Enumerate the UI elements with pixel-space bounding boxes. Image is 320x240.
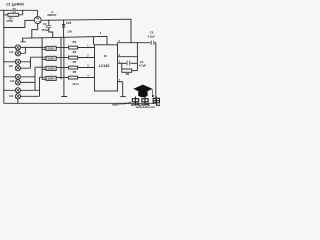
svg-text:H3: H3	[10, 79, 14, 83]
svg-text:C1 1μ/400V: C1 1μ/400V	[6, 3, 25, 7]
wire pin5	[118, 62, 127, 64]
lamp H2 pair wires	[4, 57, 46, 68]
svg-text:SSR2: SSR2	[48, 57, 56, 61]
svg-text:1k×4: 1k×4	[72, 82, 79, 86]
op-amp U1 IC box	[95, 45, 118, 91]
svg-text:VD4: VD4	[66, 21, 72, 25]
svg-text:SSR4: SSR4	[48, 77, 56, 81]
lamp H1a	[15, 45, 20, 50]
resistor R3	[56, 57, 68, 59]
watermark graduation cap icon	[133, 85, 154, 98]
bridge rectifier U	[34, 17, 41, 24]
wire RC right vertical	[136, 43, 138, 71]
lamp H3b	[15, 80, 20, 85]
resistor R4	[56, 67, 68, 69]
svg-text:H1: H1	[9, 50, 13, 54]
wire left bus	[3, 10, 5, 103]
wire bus to bridge left	[4, 20, 34, 27]
node lamp column top tee	[20, 38, 25, 42]
SSR1	[46, 46, 56, 50]
junction dots	[3, 10, 138, 91]
svg-text:H4: H4	[9, 94, 13, 98]
capacitor C5	[151, 41, 154, 45]
svg-text:LC162: LC162	[99, 64, 110, 68]
wire DC- bus	[23, 36, 107, 38]
wire pin7 ground	[118, 82, 123, 97]
wire top AC line	[0, 9, 38, 11]
zener diode VD4	[63, 20, 65, 24]
wire DC+ rail	[41, 19, 131, 43]
resistor R1	[4, 14, 8, 16]
svg-text:4.7μF: 4.7μF	[139, 63, 147, 67]
lamp H2b	[15, 66, 20, 71]
SSR4	[46, 76, 56, 80]
lamp H1b	[15, 51, 20, 56]
svg-text:R4: R4	[73, 60, 77, 64]
capacitor C4	[127, 61, 130, 66]
svg-text:C5: C5	[150, 31, 154, 35]
lamp H4b	[15, 94, 20, 99]
capacitor C2	[48, 20, 50, 25]
resistor R6	[121, 63, 123, 69]
svg-text:+: +	[45, 24, 47, 28]
SSR2	[46, 56, 56, 60]
svg-text:R3: R3	[73, 50, 77, 54]
SSR3	[46, 66, 56, 70]
wire SSR common vertical	[41, 38, 43, 80]
svg-text:SSR1: SSR1	[48, 47, 56, 51]
svg-text:R5: R5	[73, 70, 77, 74]
lamp H3 pair wires	[4, 67, 46, 90]
wire pin8 top right	[118, 43, 151, 45]
lamp H1 pair wires	[4, 47, 46, 53]
svg-text:www.dzdz.com: www.dzdz.com	[135, 105, 156, 109]
svg-text:R2: R2	[73, 40, 77, 44]
wire bridge top lead	[37, 10, 39, 16]
wire bottom bus	[4, 102, 156, 104]
svg-text:470k: 470k	[6, 19, 13, 23]
svg-text:SSR3: SSR3	[48, 67, 56, 71]
wire pin6	[118, 56, 138, 58]
wire IC top pins	[94, 36, 108, 44]
svg-text:2W06V: 2W06V	[47, 13, 56, 17]
svg-text:470μF: 470μF	[41, 28, 49, 32]
resistor R5	[56, 77, 68, 79]
lamp H4a	[15, 88, 20, 93]
wire right edge vertical	[155, 43, 157, 104]
capacitor C1	[13, 8, 16, 13]
wire lamp bottom to bus	[17, 99, 19, 103]
lamp H3a	[15, 74, 20, 79]
wire bridge bottom to minus bus	[32, 24, 38, 38]
svg-text:4.7μF: 4.7μF	[148, 34, 156, 38]
wire SSR right verticals	[61, 37, 64, 96]
svg-text:H2: H2	[9, 64, 13, 68]
lamp H4 pair wires	[4, 77, 46, 96]
resistor R2	[56, 47, 68, 49]
lamp H2a	[15, 59, 20, 64]
ground	[61, 96, 67, 98]
ground	[120, 96, 126, 98]
svg-text:12V: 12V	[67, 30, 72, 34]
